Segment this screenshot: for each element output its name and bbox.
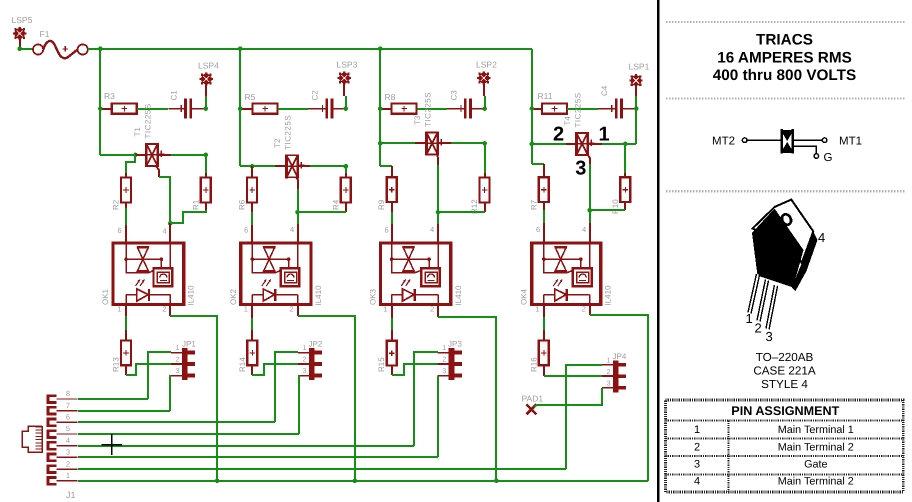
optocoupler OK3 body [381, 243, 451, 305]
resistor R9 [387, 177, 397, 202]
wire JP4 pin1 net [566, 365, 602, 469]
pad PAD1 [526, 404, 536, 414]
wire R2 to pin6 [125, 208, 127, 225]
svg-text:R3: R3 [104, 91, 115, 101]
junction ch2 r6 [250, 164, 255, 169]
svg-text:4: 4 [694, 476, 700, 488]
title line 1 [756, 32, 813, 49]
svg-text:2: 2 [176, 357, 180, 364]
wire R2 top lead [125, 173, 127, 178]
pin 1 OK2 [244, 305, 248, 314]
svg-text:1: 1 [176, 345, 180, 352]
OK2 internal pin6 wire [251, 243, 253, 259]
label R1 [191, 199, 200, 210]
OK1 internal junction right [160, 257, 164, 261]
wire opto4 pin4 stub [589, 223, 591, 242]
label LSP5 [12, 15, 33, 25]
pin 6 opto1 [118, 226, 122, 235]
resistor R10 [620, 177, 630, 202]
svg-text:2: 2 [553, 124, 564, 146]
wire R6 bottom lead [251, 202, 253, 212]
JP4 pin3 number [607, 380, 611, 387]
J1 pin 7 stub [48, 407, 78, 414]
OK1 internal photo-triac [137, 247, 149, 271]
resistor R1 [201, 178, 211, 203]
wire ch2 left rail [239, 49, 241, 166]
svg-text:2: 2 [66, 459, 70, 468]
svg-text:LSP1: LSP1 [629, 62, 650, 72]
resistor R3 [112, 104, 137, 114]
wire R9 to pin6 [391, 212, 393, 224]
wire JP2 pin1 net [275, 352, 298, 422]
svg-text:2: 2 [582, 305, 586, 314]
wire J1 pin 5 net [78, 433, 299, 435]
wire T4 left lead [566, 143, 576, 145]
JP3 pin3 number [442, 368, 446, 375]
wire opto1 pin1 stub [125, 306, 127, 316]
junction R3 tap [98, 106, 103, 111]
wire pin1 to R13 [125, 316, 127, 330]
svg-text:4: 4 [66, 436, 70, 445]
wire R6 to pin6 [251, 212, 253, 225]
svg-text:TIC225S: TIC225S [574, 92, 583, 127]
wire ch4 top riser [635, 109, 637, 144]
svg-text:1: 1 [66, 471, 70, 480]
wire R14 top lead [251, 330, 253, 340]
table row pin 4 number [694, 476, 700, 488]
wire R13 to JP1 pin2 [126, 364, 171, 375]
TO-220 pin 3 label [766, 329, 773, 344]
panel triac symbol [747, 129, 822, 154]
wire J1 pin 2 net [78, 468, 566, 470]
label R9 [377, 199, 386, 210]
table row pin 1 desc [778, 424, 854, 436]
wire R3 left lead [100, 108, 112, 110]
wire snub down ch3 [484, 143, 486, 173]
J1 pin 5 stub [48, 431, 78, 438]
wire opto4 pin2 stub [589, 306, 591, 315]
label R15 [377, 357, 386, 372]
label MT1 [839, 136, 862, 148]
wire gate ch2 [297, 189, 299, 224]
resistor R8 [392, 104, 417, 114]
OK1 zero-cross driver [154, 268, 173, 286]
wire ch3 left rail [379, 49, 381, 166]
svg-text:1: 1 [442, 345, 446, 352]
label T2 [273, 138, 282, 148]
wire JP1 pin2 lead [171, 363, 182, 365]
svg-text:JP1: JP1 [182, 340, 196, 349]
wire opto2 pin6 stub [251, 225, 253, 242]
OK4 internal wire a [544, 259, 573, 273]
OK2 internal waist wire [252, 258, 288, 260]
wire J1 pin 4 net [78, 445, 414, 447]
junction top rail ch2 [238, 46, 243, 51]
JP2 pin1 number [303, 345, 307, 352]
label LSP1 [629, 62, 650, 72]
label OK3 value [454, 285, 463, 306]
triac T4 [577, 132, 595, 156]
wire opto2 pin2 stub [297, 306, 299, 316]
JP2 pin3 number [303, 368, 307, 375]
svg-text:16 AMPERES RMS: 16 AMPERES RMS [717, 50, 852, 67]
capacitor C2 [308, 99, 347, 119]
pin 6 opto4 [536, 225, 540, 234]
wire J1 pin 7 net [78, 410, 170, 412]
OK3 internal pin6 wire [391, 243, 393, 259]
capacitor C1 [168, 99, 205, 119]
junction R11 tap [530, 106, 535, 111]
wire R12 bottom lead [484, 202, 486, 212]
svg-text:7: 7 [66, 401, 70, 410]
wire JP4 pin2 lead [602, 375, 613, 377]
svg-text:R6: R6 [238, 199, 247, 210]
big pin label 1 [598, 124, 609, 146]
OK2 internal pin1 wire [251, 295, 253, 305]
label T1 value [144, 103, 153, 138]
J1 pin 2 stub [48, 466, 78, 473]
J1 pin 1 stub [48, 477, 78, 484]
wire JP1 pin3 net [170, 376, 171, 411]
wire LSP4 down [205, 96, 207, 109]
OK1 internal pin6 wire [125, 243, 127, 259]
svg-text:4: 4 [290, 225, 294, 234]
wire opto3 pin2 run [438, 317, 496, 481]
svg-text:T1: T1 [133, 127, 142, 137]
wire main ch1 left [100, 154, 135, 156]
table row pin 2 desc [778, 442, 854, 454]
junction R5 tap [238, 106, 243, 111]
wire fuse to rail [88, 48, 100, 50]
OK4 internal photo-triac [555, 247, 567, 271]
junction C1 node [204, 106, 209, 111]
label T2 value [284, 115, 293, 150]
junction ch3 snub [482, 141, 487, 146]
label C4 [600, 85, 609, 96]
resistor R11 [542, 104, 567, 114]
pin 4 opto4 [582, 225, 586, 234]
wire opto1 pin4 stub [169, 223, 171, 242]
connector JP3 [438, 348, 462, 380]
wire JP3 pin3 net [437, 376, 439, 457]
svg-text:LSP4: LSP4 [198, 61, 219, 71]
svg-text:OK2: OK2 [229, 288, 238, 305]
label J1 [66, 490, 76, 500]
wire T4 right lead [588, 143, 602, 145]
svg-text:TIC225S: TIC225S [284, 115, 293, 150]
label LSP4 [198, 61, 219, 71]
OK3 internal waist wire [392, 258, 429, 260]
OK1 internal pin1 wire [125, 295, 127, 305]
wire main ch2 left [240, 165, 275, 167]
wire opto1 pin2 stub [169, 306, 171, 316]
wire R5 to C2 [278, 108, 308, 110]
OK1 LED light arrows [136, 280, 145, 287]
OK1 internal wire b [160, 259, 162, 268]
JP4 pin2 number [607, 369, 611, 376]
svg-text:2: 2 [303, 357, 307, 364]
svg-text:OK3: OK3 [369, 288, 378, 305]
svg-text:F1: F1 [40, 29, 50, 39]
svg-text:R15: R15 [377, 357, 386, 372]
wire snub down ch1 [205, 155, 207, 173]
OK3 zero-cross driver [421, 268, 440, 286]
OK4 internal pin4 wire [589, 243, 591, 268]
svg-text:1: 1 [607, 357, 611, 364]
capacitor C3 [447, 99, 485, 119]
svg-text:R14: R14 [238, 357, 247, 372]
connector JP4 [602, 360, 626, 392]
wire JP2 pin3 net [298, 376, 299, 434]
resistor R7 [539, 177, 549, 202]
label T4 value [574, 92, 583, 127]
wire main ch2 right [310, 165, 346, 167]
J1 pin 7 number [66, 401, 70, 410]
wire R8 left lead [380, 108, 392, 110]
svg-text:4: 4 [163, 227, 167, 236]
wire top rail [100, 48, 532, 50]
svg-text:2: 2 [755, 321, 762, 336]
svg-text:3: 3 [176, 368, 180, 375]
svg-text:3: 3 [575, 158, 586, 180]
svg-text:T2: T2 [273, 138, 282, 148]
wire opto1 pin6 stub [125, 225, 127, 242]
resistor R12 [480, 178, 490, 203]
package name [756, 351, 814, 364]
wire R10 bottom lead [624, 202, 626, 210]
wire R5 left lead [240, 108, 253, 110]
label R13 [112, 357, 121, 372]
wire R16 top lead [543, 330, 545, 340]
junction C3 node [482, 106, 487, 111]
svg-text:3: 3 [303, 368, 307, 375]
svg-text:C4: C4 [600, 85, 609, 96]
optocoupler OK4 body [532, 243, 601, 305]
wire R16 to JP4 pin2 [544, 375, 602, 377]
wire opto4 pin1 stub [543, 306, 545, 317]
wire R15 bottom lead [391, 366, 393, 375]
svg-text:LSP5: LSP5 [12, 15, 33, 25]
label R3 [104, 91, 115, 101]
panel divider 2 [666, 97, 905, 99]
svg-text:Gate: Gate [804, 459, 827, 471]
OK2 internal junction right [287, 257, 291, 261]
wire LSP3 down [345, 96, 347, 109]
wire T2 left lead [275, 165, 286, 167]
wire JP4 pin3 net [537, 388, 602, 405]
wire R7 to pin6 [543, 210, 545, 223]
wire main ch3 left [380, 142, 415, 144]
panel divider 3 [666, 190, 905, 192]
test point LSP3 [338, 71, 351, 84]
svg-text:LSP3: LSP3 [337, 60, 358, 70]
svg-text:6: 6 [385, 226, 389, 235]
svg-text:PIN ASSIGNMENT: PIN ASSIGNMENT [731, 404, 839, 418]
junction ch1 snub [204, 153, 209, 158]
J1 pin 4 stub [48, 442, 78, 449]
svg-text:Main Terminal 2: Main Terminal 2 [778, 442, 854, 454]
panel triac pin G [814, 154, 819, 159]
svg-text:6: 6 [66, 413, 70, 422]
JP1 pin1 number [176, 345, 180, 352]
wire snub down ch2 [345, 166, 347, 173]
table row pin 1 number [694, 424, 700, 436]
wire main ch4 right [602, 143, 636, 145]
table row pin 2 number [694, 442, 700, 454]
svg-text:TO–220AB: TO–220AB [756, 351, 814, 364]
pin 2 OK2 [290, 305, 294, 314]
wire R4 top lead [345, 173, 347, 178]
svg-text:R16: R16 [529, 357, 538, 372]
wire R10 top lead [624, 173, 626, 177]
OK3 internal pin4 wire [437, 243, 439, 268]
OK1 internal pin2 wire [169, 295, 171, 305]
panel triac pin MT2 [742, 138, 747, 143]
pin 6 opto3 [385, 226, 389, 235]
wire opto3 pin2 stub [437, 306, 439, 317]
OK4 internal pin2 wire [589, 295, 591, 305]
svg-text:3: 3 [607, 380, 611, 387]
junction opto1 return [215, 479, 220, 484]
test point LSP5 [13, 27, 26, 40]
OK4 zero-cross driver [573, 268, 592, 286]
svg-text:R10: R10 [611, 199, 620, 214]
label R14 [238, 357, 247, 372]
wire R3 to C1 [137, 108, 168, 110]
pin 4 opto1 [163, 227, 167, 236]
wire ch3 R9 tap [380, 165, 392, 167]
junction ch1 mt1 [133, 153, 138, 158]
label JP1 [182, 340, 196, 349]
wire main ch3 right [451, 142, 485, 144]
wire T2 right lead [298, 165, 310, 167]
JP1 pin3 number [176, 368, 180, 375]
junction opto2 return [353, 479, 358, 484]
svg-text:T4: T4 [563, 116, 572, 126]
test point LSP2 [477, 71, 490, 84]
label LSP3 [337, 60, 358, 70]
wire opto3 pin1 stub [391, 306, 393, 318]
wire J1 pin 6 net [78, 421, 275, 423]
wire gate ch4 [589, 164, 591, 223]
svg-text:2: 2 [607, 369, 611, 376]
label JP4 [613, 352, 627, 361]
resistor R5 [253, 104, 278, 114]
svg-text:1: 1 [303, 345, 307, 352]
wire PAD1 stub [534, 405, 537, 407]
pin 1 OK1 [118, 305, 122, 314]
big pin label 3 [575, 158, 586, 180]
svg-text:1: 1 [383, 305, 387, 314]
wire T3 left lead [415, 142, 426, 144]
OK3 internal photo-triac [403, 247, 415, 271]
wire JP1 pin1 net [148, 352, 171, 399]
J1 pin 8 stub [48, 396, 78, 403]
resistor R16 [539, 341, 549, 366]
TO-220 pin 1 label [746, 311, 753, 326]
wire LSP4 stub [205, 84, 207, 96]
label R5 [245, 92, 256, 102]
wire R13 bottom lead [125, 365, 127, 375]
wire T1 left lead [135, 154, 146, 156]
junction opto3 return [494, 479, 499, 484]
wire J1 pin 3 net [78, 456, 438, 458]
pin 6 opto2 [244, 226, 248, 235]
wire LSP2 down [484, 96, 486, 109]
TO-220 package drawing [750, 200, 818, 329]
wire opto2 pin4 stub [297, 224, 299, 242]
TO-220 pin 4 label [818, 230, 825, 245]
wire LSP5 to fuse [20, 48, 33, 50]
wire gate ch3 [437, 165, 439, 224]
svg-text:OK4: OK4 [520, 288, 529, 305]
pin 2 OK4 [582, 305, 586, 314]
wire opto2 pin1 stub [251, 306, 253, 318]
wire opto1 pin2 run [170, 316, 217, 481]
svg-text:3: 3 [694, 459, 700, 471]
resistor R13 [121, 341, 131, 366]
svg-text:4: 4 [582, 225, 586, 234]
wire opto4 pin2 run [590, 315, 648, 481]
test point LSP4 [200, 72, 213, 85]
OK1 internal LED [126, 289, 170, 301]
JP3 pin1 number [442, 345, 446, 352]
wire LSP1 down [635, 96, 637, 109]
J1 pin 3 number [66, 448, 70, 457]
label G [824, 152, 833, 164]
svg-text:2: 2 [430, 305, 434, 314]
wire R15 top lead [391, 330, 393, 341]
resistor R6 [247, 178, 257, 203]
JP4 pin1 number [607, 357, 611, 364]
resistor R4 [341, 178, 351, 203]
wire opto2 pin2 run [298, 316, 355, 481]
wire R10 top riser [624, 144, 626, 173]
svg-text:4: 4 [818, 230, 825, 245]
label C3 [450, 90, 459, 101]
label R2 [112, 199, 121, 210]
label LSP2 [476, 60, 497, 70]
label R11 [538, 91, 553, 101]
OK4 internal waist wire [544, 258, 581, 260]
svg-text:400 thru 800 VOLTS: 400 thru 800 VOLTS [713, 67, 856, 84]
wire R11 to C4 [567, 108, 598, 110]
svg-text:R4: R4 [331, 199, 340, 210]
junction ch4 pin4 [587, 208, 592, 213]
label OK3 [369, 288, 378, 305]
capacitor C4 [598, 99, 636, 119]
label R4 [331, 199, 340, 210]
wire J1 pin 8 net [78, 398, 148, 400]
svg-text:2: 2 [162, 305, 166, 314]
wire R1 to pin4 [170, 210, 206, 223]
OK1 internal waist wire [126, 258, 161, 260]
svg-text:2: 2 [694, 442, 700, 454]
label F1 [40, 29, 50, 39]
test point LSP1 [629, 74, 642, 87]
wire R13 top lead [125, 330, 127, 340]
junction LSP5 [17, 46, 22, 51]
resistor R15 [387, 341, 397, 366]
OK3 internal LED [392, 289, 438, 301]
wire J1 pin 1 net [78, 480, 648, 482]
wire R2 bottom lead [125, 202, 127, 208]
J1 origin cross [102, 434, 123, 455]
svg-text:JP2: JP2 [309, 340, 323, 349]
svg-text:Main Terminal 2: Main Terminal 2 [778, 476, 854, 488]
wire T4 gate [587, 154, 590, 164]
panel divider 1 [666, 21, 905, 23]
